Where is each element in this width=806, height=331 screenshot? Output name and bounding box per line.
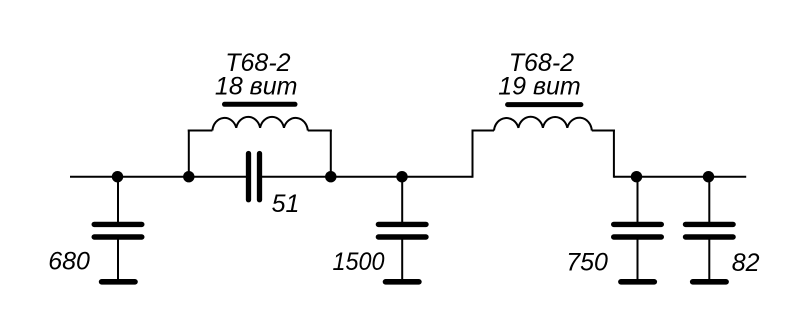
inductor L2 (T68-2, 19 turns) with riser wires [472, 117, 615, 178]
ground (under C3) [386, 279, 419, 285]
value label 82 [732, 249, 760, 277]
ground (under C4) [621, 279, 654, 285]
core bar L1 [225, 102, 296, 107]
capacitor C2 51 (series) [249, 154, 260, 200]
svg-text:680: 680 [48, 248, 90, 276]
node C (L1/C51 right) [325, 171, 336, 182]
wire output segment [614, 176, 746, 178]
svg-text:1500: 1500 [333, 248, 385, 276]
value label 1500 [333, 248, 385, 276]
node B (L1/C51 left) [183, 171, 194, 182]
wire middle segment [262, 176, 473, 178]
value label 51 [272, 190, 300, 218]
svg-text:19 вит: 19 вит [498, 72, 581, 100]
node E (C 750 node) [631, 171, 642, 182]
wire input segment [70, 176, 246, 178]
node F (C 82 node) [703, 171, 714, 182]
svg-text:750: 750 [566, 248, 608, 276]
capacitor C5 82 (shunt) [686, 177, 734, 282]
label 19 вит (L2 turns) [498, 72, 581, 100]
ground (under C1) [102, 279, 135, 285]
node A (input node) [112, 171, 123, 182]
label T68-2 (L1) [225, 49, 290, 77]
svg-text:18 вит: 18 вит [215, 72, 298, 100]
value label 750 [566, 248, 608, 276]
label T68-2 (L2) [509, 49, 574, 77]
capacitor C3 1500 (shunt) [378, 177, 426, 282]
ground (under C5) [693, 279, 726, 285]
label 18 вит (L1 turns) [215, 72, 298, 100]
svg-text:51: 51 [272, 190, 300, 218]
capacitor C4 750 (shunt) [614, 177, 662, 282]
node D (C 1500 node) [396, 171, 407, 182]
svg-text:82: 82 [732, 249, 760, 277]
core bar L2 [508, 102, 581, 107]
capacitor C1 680 (shunt) [94, 177, 142, 282]
value label 680 [48, 248, 90, 276]
inductor L1 (T68-2, 18 turns) [188, 117, 332, 177]
